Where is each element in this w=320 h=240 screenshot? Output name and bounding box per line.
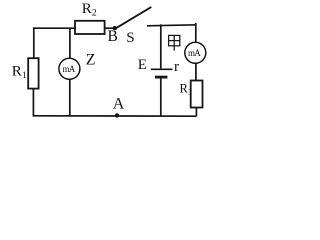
svg-text:E: E <box>138 57 147 73</box>
label jia (Chinese char) <box>169 35 180 50</box>
wire R2 to node B <box>105 27 117 29</box>
wire left branch vertical upper <box>33 27 35 58</box>
wire top-right horizontal <box>147 25 196 26</box>
battery E long plate <box>151 68 173 70</box>
switch S blade <box>117 7 151 27</box>
svg-text:mA: mA <box>63 64 76 74</box>
wire ammeter-yi branch lower <box>69 79 71 117</box>
svg-text:r: r <box>174 59 179 75</box>
ammeter jia (mA meter U-jia) <box>185 42 206 63</box>
resistor R2 <box>75 21 105 34</box>
wire bottom horizontal <box>33 115 196 117</box>
wire ammeter-yi branch upper <box>69 28 71 58</box>
resistor R1 <box>28 58 38 88</box>
svg-text:A: A <box>113 96 125 113</box>
ammeter yi (mA meter U-yi) <box>59 58 80 79</box>
wire battery branch upper <box>160 24 162 68</box>
wire left branch vertical lower <box>32 89 34 117</box>
wire R3 branch lower <box>195 108 197 117</box>
resistor R3 <box>191 81 203 108</box>
svg-text:B: B <box>108 28 118 45</box>
svg-text:Z: Z <box>86 52 96 69</box>
wire ammeter-jia branch lower <box>195 63 197 81</box>
node B dot <box>113 26 117 30</box>
wire top-left horizontal <box>33 27 75 29</box>
wire battery branch lower <box>160 78 162 116</box>
node A dot <box>115 113 119 117</box>
battery short plate <box>155 76 167 79</box>
svg-text:mA: mA <box>188 48 201 58</box>
svg-text:S: S <box>126 30 134 46</box>
wire ammeter-jia branch upper <box>195 23 197 43</box>
